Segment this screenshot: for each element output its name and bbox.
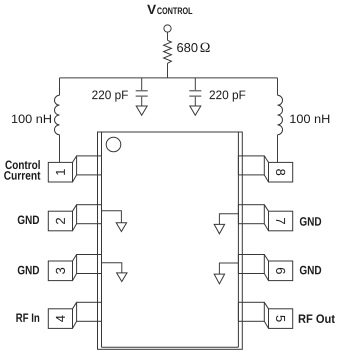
terminal VCONTROL (164, 25, 171, 32)
pin 2 (48, 205, 101, 231)
pin 1 label Control Current (5, 160, 39, 169)
wire bus node (60, 77, 278, 79)
pin 6 (238, 255, 292, 281)
pin 3 (48, 255, 101, 281)
ground pin 7 (214, 224, 224, 233)
pin 5 label RF Out (299, 314, 335, 323)
inductor L2 100 nH (278, 95, 283, 134)
wire terminal to resistor (167, 32, 169, 40)
wire bus right drop (277, 78, 279, 95)
node VCONTROL label (147, 5, 156, 14)
wire internal ground pin 3 (102, 263, 122, 273)
pin 4 label RF In (16, 314, 39, 322)
pin 8 (238, 156, 292, 182)
IC U1 package body (98, 132, 243, 349)
ground pin 6 (214, 274, 224, 284)
value label 220 pF left (92, 90, 128, 101)
wire inductor L1 to pin 1 (59, 135, 61, 163)
wire internal ground pin 7 (219, 214, 238, 225)
value label 100 nH left (12, 114, 51, 123)
ground pin 2 (116, 223, 126, 232)
U1 pin 1 index circle (106, 137, 121, 152)
wire resistor to bus (167, 63, 169, 78)
ground C1 (136, 106, 147, 115)
wire inductor L2 to pin 8 (277, 135, 279, 163)
capacitor C2 220 pF (189, 78, 201, 106)
pin 4 (48, 302, 101, 328)
wire internal ground pin 6 (219, 263, 238, 274)
wire bus left drop (59, 78, 61, 95)
wire internal ground pin 2 (102, 211, 122, 223)
resistor R1 680 ohm (164, 40, 172, 63)
pin 2 label GND (18, 215, 39, 224)
value label 220 pF right (210, 90, 246, 101)
pin 5 (238, 302, 292, 328)
pin 7 label GND (300, 217, 321, 226)
capacitor C1 220 pF (136, 78, 148, 106)
pin 3 label GND (18, 266, 39, 275)
pin 7 (238, 205, 292, 231)
pin 1 (48, 156, 101, 182)
pin 6 label GND (300, 266, 321, 275)
value label 680 ohm (177, 43, 197, 52)
inductor L1 100 nH (54, 95, 59, 134)
ground C2 (190, 106, 201, 115)
value label 100 nH right (290, 114, 329, 123)
ground pin 3 (117, 273, 127, 282)
